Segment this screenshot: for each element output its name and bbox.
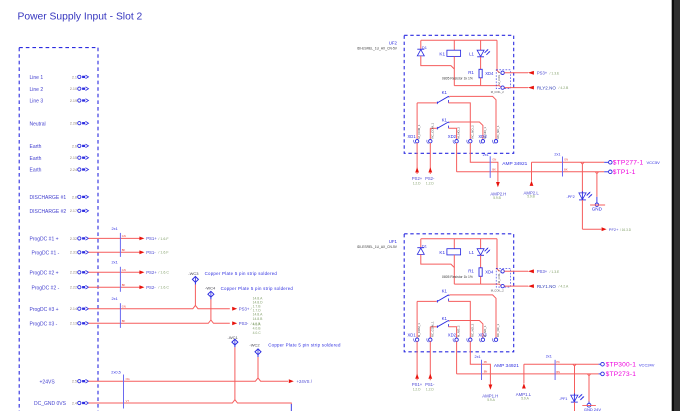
svg-text:/ 4.2.A: / 4.2.A: [559, 285, 570, 289]
svg-text:BK: BK: [492, 168, 496, 172]
svg-text:XD3: XD3: [478, 332, 487, 337]
svg-text:-WC2: -WC2: [249, 342, 260, 347]
svg-text:2.22: 2.22: [70, 286, 77, 290]
svg-text:2x1: 2x1: [475, 355, 481, 359]
svg-text:/ 1.6.F: / 1.6.F: [158, 237, 169, 241]
svg-text:PK: PK: [556, 360, 560, 364]
svg-text:RLY1.NO: RLY1.NO: [537, 284, 556, 289]
svg-text:PS2+: PS2+: [146, 270, 157, 275]
svg-text:/: /: [251, 307, 252, 311]
svg-text:$TP273-1: $TP273-1: [606, 371, 637, 378]
svg-text:2.13: 2.13: [70, 322, 77, 326]
svg-text:M_NO_2: M_NO_2: [457, 127, 461, 139]
svg-text:UF1: UF1: [389, 239, 398, 244]
svg-text:PS1+: PS1+: [412, 382, 423, 387]
svg-text:2.24: 2.24: [70, 168, 77, 172]
svg-text:5.9.B: 5.9.B: [493, 196, 501, 200]
svg-text:DISCHARGE #1: DISCHARGE #1: [30, 195, 67, 201]
svg-text:Line 3: Line 3: [30, 99, 44, 105]
svg-text:$TP300-1: $TP300-1: [606, 361, 637, 368]
svg-text:R1: R1: [468, 70, 474, 75]
svg-text:BN: BN: [484, 370, 488, 374]
svg-text:1.2.D: 1.2.D: [413, 181, 421, 185]
svg-text:M_COIL_2: M_COIL_2: [491, 90, 505, 94]
svg-text:PS3+: PS3+: [239, 306, 250, 311]
svg-text:R1: R1: [468, 269, 474, 274]
svg-text:BK: BK: [122, 283, 126, 287]
svg-text:/ 4.2.B: / 4.2.B: [559, 86, 570, 90]
svg-text:XD1: XD1: [408, 134, 417, 139]
svg-text:-WC4: -WC4: [205, 286, 216, 291]
svg-text:+24VS /: +24VS /: [297, 379, 313, 384]
svg-text:2.8: 2.8: [72, 195, 77, 199]
svg-text:GND 24V: GND 24V: [584, 407, 601, 411]
svg-text:2.31: 2.31: [70, 251, 77, 255]
svg-text:D1: D1: [422, 244, 427, 249]
svg-text:M_NO_2: M_NO_2: [457, 325, 461, 337]
svg-text:PS1-: PS1-: [425, 382, 435, 387]
svg-text:L1: L1: [469, 250, 474, 255]
svg-text:2.6: 2.6: [72, 144, 77, 148]
svg-text:Earth: Earth: [30, 144, 42, 150]
svg-text:-WC1: -WC1: [228, 335, 239, 340]
svg-text:PS3+: PS3+: [537, 71, 548, 76]
svg-text:VT: VT: [126, 399, 130, 403]
svg-text:2x1: 2x1: [112, 296, 118, 301]
svg-text:ProgDC #2 +: ProgDC #2 +: [30, 271, 59, 277]
svg-text:Earth: Earth: [30, 156, 42, 162]
svg-text:GN: GN: [122, 234, 126, 238]
svg-text:VCC24V: VCC24V: [639, 362, 655, 367]
svg-text:UF2: UF2: [389, 40, 398, 45]
svg-text:/ 1.6.F: / 1.6.F: [158, 251, 169, 255]
svg-text:XD4: XD4: [485, 71, 494, 76]
svg-text:PS1+: PS1+: [146, 236, 157, 241]
svg-text:GN: GN: [492, 158, 496, 162]
svg-text:2.14: 2.14: [70, 307, 77, 311]
svg-text:IDI-ESREL_1U_AX_CN-5V: IDI-ESREL_1U_AX_CN-5V: [357, 245, 398, 249]
svg-text:M_COIL_2: M_COIL_2: [491, 288, 505, 292]
svg-text:XD1: XD1: [408, 332, 417, 337]
svg-text:K1: K1: [439, 250, 445, 255]
svg-text:M_COIL_1: M_COIL_1: [497, 71, 501, 85]
svg-text:Line 1: Line 1: [30, 75, 44, 81]
svg-text:2x1: 2x1: [112, 226, 118, 231]
svg-text:BK: BK: [122, 319, 126, 323]
svg-text:M_COM_1: M_COM_1: [417, 323, 421, 337]
svg-text:ProgDC #3 -: ProgDC #3 -: [30, 322, 58, 328]
svg-text:DC_GND 0VS: DC_GND 0VS: [34, 401, 67, 407]
svg-text:2.23: 2.23: [70, 271, 77, 275]
svg-text:/ 16.3.D: / 16.3.D: [620, 228, 632, 232]
svg-text:ProgDC #3 +: ProgDC #3 +: [30, 307, 59, 313]
svg-text:BK: BK: [122, 248, 126, 252]
svg-text:RC_NC_1: RC_NC_1: [496, 125, 500, 139]
svg-text:2.10: 2.10: [70, 87, 77, 91]
svg-text:D1: D1: [422, 45, 427, 50]
svg-text:PS3-: PS3-: [239, 321, 249, 326]
svg-text:GND: GND: [592, 207, 603, 212]
svg-text:DISCHARGE #2: DISCHARGE #2: [30, 209, 67, 215]
svg-text:VCC5V: VCC5V: [647, 160, 661, 165]
svg-text:RC_COM_1: RC_COM_1: [430, 321, 434, 337]
svg-text:IDI-ESREL_1U_AX_CN-5V: IDI-ESREL_1U_AX_CN-5V: [357, 47, 398, 51]
svg-text:BK: BK: [564, 167, 568, 171]
svg-text:L1: L1: [469, 51, 474, 56]
svg-text:5.9.A: 5.9.A: [521, 397, 529, 401]
svg-text:-PF2: -PF2: [567, 195, 575, 199]
svg-text:PS2-: PS2-: [146, 285, 156, 290]
svg-text:Copper Plate 5 pin strip solde: Copper Plate 5 pin strip soldered: [268, 343, 341, 348]
svg-text:2.28: 2.28: [70, 122, 77, 126]
svg-text:BN: BN: [556, 370, 560, 374]
svg-text:XD3: XD3: [478, 134, 487, 139]
svg-text:Copper Plate 5 pin strip solde: Copper Plate 5 pin strip soldered: [205, 271, 278, 276]
svg-text:GN: GN: [122, 305, 126, 309]
svg-text:5.9.B: 5.9.B: [527, 195, 535, 199]
svg-text:$TP1-1: $TP1-1: [613, 169, 636, 176]
svg-text:XD2: XD2: [448, 134, 457, 139]
svg-text:RC_NC_1: RC_NC_1: [496, 324, 500, 338]
svg-text:Line 2: Line 2: [30, 87, 44, 93]
svg-text:2.32: 2.32: [70, 237, 77, 241]
svg-text:M_COIL_1: M_COIL_1: [497, 270, 501, 284]
svg-text:RC_COM_1: RC_COM_1: [430, 122, 434, 138]
svg-text:XD2: XD2: [448, 332, 457, 337]
svg-text:1.2.D: 1.2.D: [426, 387, 434, 391]
svg-text:/ 1.6.C: / 1.6.C: [158, 286, 169, 290]
svg-text:K1: K1: [442, 90, 448, 95]
svg-text:$TP277-1: $TP277-1: [613, 160, 644, 167]
svg-text:K1: K1: [442, 316, 448, 321]
svg-text:2x1: 2x1: [112, 260, 118, 265]
svg-text:GN: GN: [122, 268, 126, 272]
svg-text:2x1: 2x1: [483, 153, 489, 157]
svg-text:0805 Resistor 1k 1%: 0805 Resistor 1k 1%: [442, 76, 473, 80]
svg-text:OG: OG: [126, 377, 130, 381]
svg-text:M_COM_1: M_COM_1: [417, 124, 421, 138]
svg-text:PK: PK: [484, 360, 488, 364]
svg-text:K1: K1: [442, 289, 448, 294]
svg-text:PF2+: PF2+: [609, 227, 619, 232]
svg-text:2x1: 2x1: [546, 354, 552, 358]
svg-text:/ 1.6.C: / 1.6.C: [158, 271, 169, 275]
svg-text:K1: K1: [442, 118, 448, 123]
svg-text:Neutral: Neutral: [30, 121, 46, 127]
svg-text:Power Supply Input - Slot 2: Power Supply Input - Slot 2: [18, 12, 143, 23]
svg-text:PS1-: PS1-: [146, 250, 156, 255]
svg-text:AMP 34921: AMP 34921: [494, 363, 519, 369]
svg-text:-PF1: -PF1: [559, 397, 567, 401]
svg-text:GN: GN: [564, 158, 568, 162]
svg-text:PS3+: PS3+: [537, 269, 548, 274]
svg-text:RC_NO_2: RC_NO_2: [470, 125, 474, 139]
svg-text:+24VS: +24VS: [40, 379, 56, 385]
svg-text:ProgDC #2 -: ProgDC #2 -: [32, 285, 60, 291]
svg-text:RC_NO_2: RC_NO_2: [470, 323, 474, 337]
svg-text:4.0.C: 4.0.C: [253, 331, 262, 335]
svg-text:AMP 34921: AMP 34921: [502, 161, 527, 167]
svg-text:ProgDC #1 -: ProgDC #1 -: [32, 251, 60, 257]
svg-text:Earth: Earth: [30, 168, 42, 174]
svg-text:2.5: 2.5: [72, 380, 77, 384]
svg-text:ProgDC #1 +: ProgDC #1 +: [30, 237, 59, 243]
svg-text:5.9.A: 5.9.A: [487, 398, 495, 402]
svg-text:2.19: 2.19: [70, 99, 77, 103]
svg-text:/ 1.3.E: / 1.3.E: [550, 270, 561, 274]
svg-text:XD4: XD4: [485, 270, 494, 275]
svg-text:14.8.B: 14.8.B: [253, 317, 264, 321]
svg-text:1.2.D: 1.2.D: [413, 387, 421, 391]
svg-text:Copper Plate 5 pin strip solde: Copper Plate 5 pin strip soldered: [221, 286, 294, 291]
svg-text:2x0,5: 2x0,5: [111, 369, 121, 374]
svg-text:K1: K1: [439, 52, 445, 57]
svg-text:0805 Resistor 1k 1%: 0805 Resistor 1k 1%: [442, 275, 473, 279]
svg-text:RLY2.NO: RLY2.NO: [537, 86, 556, 91]
svg-text:-WC3: -WC3: [188, 271, 199, 276]
svg-text:2x1: 2x1: [554, 152, 560, 156]
svg-text:2.4: 2.4: [72, 401, 77, 405]
svg-text:1.2.D: 1.2.D: [426, 181, 434, 185]
svg-text:2.15: 2.15: [70, 156, 77, 160]
svg-text:2.1: 2.1: [72, 75, 77, 79]
svg-text:/ 1.3.E: / 1.3.E: [550, 71, 561, 75]
svg-text:2.17: 2.17: [70, 209, 77, 213]
